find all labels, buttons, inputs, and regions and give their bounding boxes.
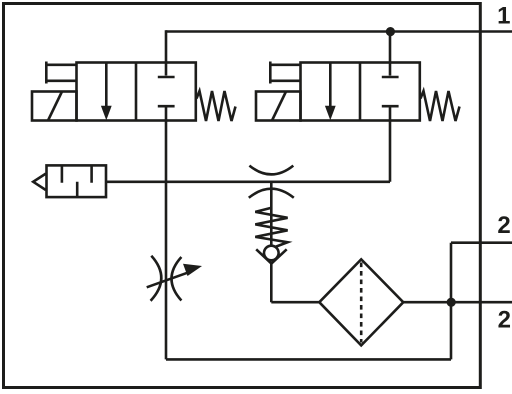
svg-text:2: 2 xyxy=(498,306,511,333)
svg-text:2: 2 xyxy=(497,212,510,239)
svg-text:1: 1 xyxy=(497,3,510,30)
